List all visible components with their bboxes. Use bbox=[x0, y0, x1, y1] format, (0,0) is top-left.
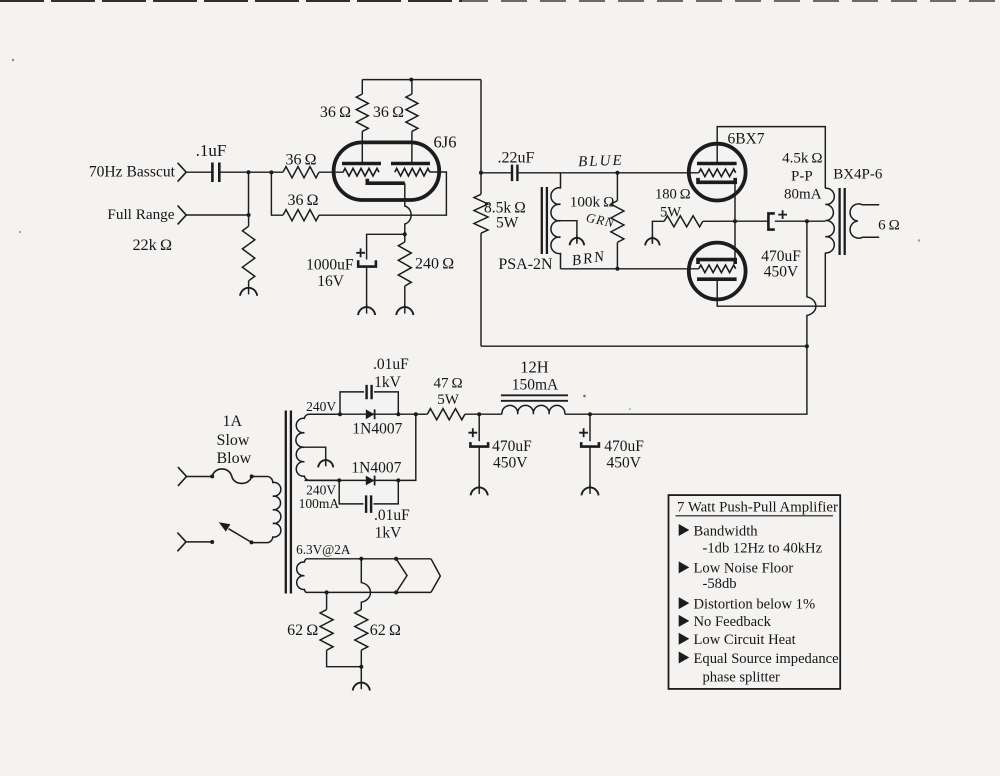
V3 plate bar bbox=[697, 277, 737, 281]
line phase splitter bbox=[703, 670, 781, 686]
input connector J3 (AC line hot) bbox=[178, 467, 187, 486]
svg-text:Bandwidth: Bandwidth bbox=[694, 523, 759, 539]
svg-text:1000uF: 1000uF bbox=[306, 257, 354, 274]
label C4 470uF bbox=[761, 248, 801, 265]
capacitor C4 470uF 450V bbox=[768, 210, 787, 229]
wire R2 to 6J6 grid 1 bbox=[319, 171, 343, 173]
bullet Equal Source impedance bbox=[679, 651, 839, 667]
wire HV top rail bbox=[340, 413, 416, 415]
wire J4 to switch contact bbox=[186, 541, 212, 543]
svg-text:470uF: 470uF bbox=[604, 438, 644, 455]
resistor R1 22k bbox=[242, 215, 254, 288]
svg-text:1N4007: 1N4007 bbox=[352, 421, 402, 438]
wire C2 to ground bbox=[366, 267, 368, 307]
label C7 470uF bbox=[492, 438, 532, 455]
label C5 .01uF bbox=[373, 356, 409, 373]
wire node D to C2 bbox=[367, 234, 405, 259]
transformer T2 primary winding bbox=[825, 188, 834, 253]
wire BRN net T1 to V3 grid bbox=[561, 268, 699, 270]
resistor R6 36 ohm plate 2 bbox=[406, 80, 418, 164]
switch S1 fixed contact bbox=[210, 540, 214, 544]
node L junction bbox=[338, 412, 342, 416]
node Q junction bbox=[477, 412, 481, 416]
node K B+ junction bbox=[805, 344, 809, 348]
wire B+ drop rail lower bbox=[480, 233, 482, 346]
label R11 62 ohm bbox=[287, 622, 318, 639]
svg-text:47 Ω: 47 Ω bbox=[434, 375, 463, 391]
tube V2 6BX7 upper envelope bbox=[689, 144, 746, 201]
label .22uF bbox=[498, 149, 535, 166]
wire B+ feed rail bbox=[481, 345, 807, 347]
svg-text:450V: 450V bbox=[607, 454, 642, 471]
wire R3 around tube to grid 2 bbox=[319, 172, 446, 215]
transformer T1 PSA-2N winding bbox=[551, 173, 561, 269]
svg-text:P-P: P-P bbox=[791, 169, 813, 185]
node E top rail junction bbox=[409, 78, 413, 82]
svg-text:450V: 450V bbox=[493, 454, 528, 471]
svg-text:100k Ω: 100k Ω bbox=[570, 193, 615, 210]
label GRN handwritten bbox=[585, 210, 617, 231]
svg-text:Equal Source impedance: Equal Source impedance bbox=[694, 651, 839, 667]
V2 cathode bar bbox=[698, 178, 735, 182]
svg-text:470uF: 470uF bbox=[492, 438, 532, 455]
transformer T3 heater winding bbox=[297, 559, 431, 593]
V2 plate bar bbox=[697, 162, 737, 166]
capacitor C3 .22uF bbox=[512, 165, 517, 182]
label 1000uF bbox=[306, 257, 354, 274]
svg-text:80mA: 80mA bbox=[784, 187, 822, 203]
heater connector inner chevron bbox=[396, 559, 407, 593]
label BLUE handwritten bbox=[578, 153, 624, 171]
wire J2 to node C bbox=[186, 214, 248, 216]
capacitor C6 .01uF 1kV snubber bbox=[339, 480, 398, 513]
label Full Range bbox=[107, 206, 174, 223]
wire choke to node R bbox=[565, 413, 590, 415]
label 6BX7 bbox=[727, 131, 764, 148]
resistor R11 62 ohm bbox=[320, 592, 361, 666]
wire J1 to C1 bbox=[186, 171, 212, 173]
wire node I to C4 bbox=[735, 220, 768, 222]
transformer T1 core bbox=[542, 187, 547, 254]
label R6 36 ohm bbox=[373, 104, 404, 121]
label 8.5k ohm bbox=[484, 199, 526, 216]
svg-text:phase splitter: phase splitter bbox=[703, 670, 781, 686]
ground below C2 bbox=[358, 304, 375, 315]
node O junction bbox=[337, 478, 341, 482]
ground below C8 bbox=[581, 485, 598, 496]
label 12H bbox=[520, 357, 549, 376]
label 22k ohm bbox=[132, 236, 172, 254]
T3 center tap wire bbox=[304, 447, 325, 466]
label 16V bbox=[317, 273, 345, 290]
ground below heater resistors bbox=[353, 667, 370, 691]
node V heater bottom junction bbox=[325, 590, 329, 594]
bullet Low Circuit Heat bbox=[679, 632, 796, 648]
label BX4P-6 bbox=[833, 167, 883, 183]
label C5 1kV bbox=[374, 374, 402, 391]
node J center tap junction bbox=[805, 219, 809, 223]
label R12 62 ohm bbox=[370, 622, 401, 639]
6J6 common cathode bar bbox=[367, 179, 405, 183]
node W ground junction bbox=[359, 665, 363, 669]
label 70Hz Basscut bbox=[89, 163, 176, 180]
svg-text:5W: 5W bbox=[660, 205, 681, 221]
line -58db bbox=[703, 576, 737, 592]
node B junction bbox=[269, 170, 273, 174]
label 47 ohm bbox=[434, 375, 463, 391]
switch S1 lever bbox=[219, 522, 254, 544]
node F .22uF tap bbox=[479, 171, 483, 175]
label 80mA bbox=[784, 187, 822, 203]
label D2 1N4007 bbox=[351, 459, 401, 476]
resistor R8 100k bbox=[611, 173, 624, 269]
6J6 grid 1 bbox=[343, 168, 379, 176]
node I cathode junction bbox=[733, 219, 737, 223]
svg-text:450V: 450V bbox=[764, 264, 799, 281]
wire node F to C3 bbox=[481, 172, 512, 174]
label C8 470uF bbox=[604, 438, 644, 455]
label Slow bbox=[217, 432, 250, 449]
resistor R4 240 ohm bbox=[398, 234, 411, 306]
ground at T3 center tap bbox=[318, 457, 333, 467]
svg-text:Low Circuit Heat: Low Circuit Heat bbox=[694, 632, 796, 648]
wire J3 to fuse bbox=[187, 476, 213, 478]
ground below R4 bbox=[396, 304, 413, 315]
transformer T2 core bbox=[840, 188, 845, 255]
label 100mA bbox=[299, 496, 340, 511]
V2 grid bbox=[699, 169, 736, 177]
line -1db 12Hz to 40kHz bbox=[703, 540, 823, 556]
svg-text:Full Range: Full Range bbox=[107, 206, 174, 223]
label C7 450V bbox=[493, 454, 528, 471]
label 6.3V@2A bbox=[296, 542, 351, 557]
svg-text:36 Ω: 36 Ω bbox=[287, 192, 318, 209]
svg-text:12H: 12H bbox=[520, 357, 549, 376]
T1 GRN tap terminal bbox=[570, 235, 585, 245]
wire C1 to node A bbox=[219, 171, 283, 173]
ground below C7 bbox=[471, 485, 488, 496]
svg-text:4.5k Ω: 4.5k Ω bbox=[782, 151, 822, 167]
transformer T3 core bbox=[286, 411, 291, 594]
transformer T3 HV secondary winding bbox=[296, 414, 340, 480]
tube V1 6J6 envelope bbox=[334, 142, 440, 200]
svg-text:36 Ω: 36 Ω bbox=[373, 104, 404, 121]
svg-text:150mA: 150mA bbox=[512, 377, 559, 394]
node D cathode junction bbox=[403, 232, 407, 236]
wire fuse to T3 primary bbox=[251, 476, 268, 478]
label P-P bbox=[791, 169, 813, 185]
resistor R7 8.5k 5W bbox=[474, 194, 488, 233]
svg-text:180 Ω: 180 Ω bbox=[655, 187, 691, 203]
node T heater top junction 2 bbox=[394, 557, 398, 561]
label 180 5W bbox=[660, 205, 681, 221]
input connector J4 (AC line neutral) bbox=[177, 533, 186, 552]
svg-text:Low Noise Floor: Low Noise Floor bbox=[694, 561, 794, 577]
bullet Bandwidth bbox=[679, 523, 759, 539]
label R2 36 ohm bbox=[285, 151, 316, 168]
capacitor C8 470uF 450V bbox=[579, 414, 599, 487]
wire V3 plate to OPT bottom bbox=[717, 253, 825, 306]
wire V3 cathode to node I bbox=[734, 221, 736, 259]
node G BLUE junction bbox=[615, 171, 619, 175]
label 100k ohm bbox=[570, 193, 615, 210]
svg-text:62 Ω: 62 Ω bbox=[287, 622, 318, 639]
label .1uF bbox=[196, 141, 227, 160]
tube V3 6BX7 lower envelope bbox=[689, 243, 746, 300]
svg-text:22k Ω: 22k Ω bbox=[132, 236, 172, 254]
input connector J2 (Full Range) bbox=[178, 206, 187, 225]
inductor L1 12H choke bbox=[502, 405, 565, 414]
info title 7 Watt Push-Pull Amplifier bbox=[676, 500, 838, 516]
wire BLUE net C3 to V2 grid bbox=[517, 172, 698, 174]
resistor R3 36 ohm (lower grid) bbox=[283, 210, 319, 221]
svg-text:70Hz Basscut: 70Hz Basscut bbox=[89, 163, 176, 180]
svg-text:1kV: 1kV bbox=[374, 374, 402, 391]
label BRN handwritten bbox=[571, 249, 607, 270]
svg-text:.01uF: .01uF bbox=[373, 356, 409, 373]
svg-text:No Feedback: No Feedback bbox=[694, 614, 772, 630]
svg-text:GRN: GRN bbox=[585, 210, 617, 231]
6J6 grid 2 bbox=[395, 168, 430, 176]
svg-text:Blow: Blow bbox=[216, 450, 251, 467]
label C6 .01uF bbox=[374, 507, 410, 524]
node R junction bbox=[588, 412, 592, 416]
node P junction bbox=[396, 478, 400, 482]
label C6 1kV bbox=[375, 525, 403, 542]
svg-text:6BX7: 6BX7 bbox=[727, 131, 764, 148]
svg-text:PSA-2N: PSA-2N bbox=[498, 256, 553, 273]
bullet No Feedback bbox=[679, 614, 772, 630]
6J6 plate 1 bar bbox=[342, 162, 381, 166]
label C8 450V bbox=[607, 454, 642, 471]
wire V2 plate to OPT top bbox=[717, 127, 825, 189]
svg-text:1A: 1A bbox=[223, 413, 243, 430]
wire node J to OPT center tap bbox=[807, 220, 825, 222]
svg-text:Distortion below 1%: Distortion below 1% bbox=[694, 596, 816, 612]
capacitor C2 1000uF 16V bbox=[356, 248, 376, 266]
wire heater top bbox=[306, 558, 431, 560]
svg-text:6J6: 6J6 bbox=[434, 133, 457, 152]
label 240V upper bbox=[306, 399, 336, 414]
info box frame bbox=[669, 495, 841, 689]
label 1A bbox=[223, 413, 243, 430]
svg-text:BLUE: BLUE bbox=[578, 153, 624, 171]
diode D2 1N4007 bbox=[366, 476, 375, 486]
svg-text:16V: 16V bbox=[317, 273, 345, 290]
label R3 36 ohm bbox=[287, 192, 318, 209]
wire 6J6 cathode with hop over grid-2 wire bbox=[405, 183, 411, 234]
diode D1 1N4007 bbox=[366, 409, 375, 419]
node N junction bbox=[414, 412, 418, 416]
svg-text:BX4P-6: BX4P-6 bbox=[833, 167, 883, 183]
fuse F1 1A slow blow bbox=[210, 469, 254, 483]
V3 cathode bar bbox=[698, 260, 735, 264]
resistor R9 180 ohm 5W bbox=[652, 216, 735, 243]
transformer T2 secondary winding bbox=[850, 204, 879, 238]
label 240V lower bbox=[306, 483, 336, 498]
label 180 ohm bbox=[655, 187, 691, 203]
svg-text:.1uF: .1uF bbox=[196, 141, 227, 160]
svg-text:62 Ω: 62 Ω bbox=[370, 622, 401, 639]
wire node A down to Full Range bbox=[248, 172, 250, 215]
inductor L1 core bbox=[501, 395, 568, 401]
transformer T3 primary winding bbox=[252, 477, 281, 543]
node S heater top junction bbox=[359, 557, 363, 561]
resistor R10 47 ohm 5W bbox=[416, 409, 502, 420]
label 47 5W bbox=[437, 392, 460, 408]
label D1 1N4007 bbox=[352, 421, 402, 438]
svg-text:6.3V@2A: 6.3V@2A bbox=[296, 542, 351, 557]
wire B+ riser with hop bbox=[590, 221, 816, 414]
T1 GRN tap wire bbox=[561, 221, 577, 242]
resistor R5 36 ohm plate 1 bbox=[356, 80, 368, 164]
label 4.5k ohm bbox=[782, 151, 822, 167]
node A junction bbox=[247, 170, 251, 174]
label 240 ohm bbox=[415, 256, 454, 273]
svg-text:1N4007: 1N4007 bbox=[351, 459, 401, 476]
capacitor C7 470uF 450V bbox=[468, 414, 488, 487]
resistor R2 36 ohm (upper grid) bbox=[283, 167, 319, 178]
R9 terminal arc bbox=[645, 235, 660, 245]
svg-text:100mA: 100mA bbox=[299, 496, 340, 511]
svg-text:7 Watt Push-Pull Amplifier: 7 Watt Push-Pull Amplifier bbox=[677, 500, 838, 516]
input connector J1 (70Hz Basscut) bbox=[178, 163, 187, 182]
scan edge artifact top bbox=[0, 1, 1000, 410]
wire HV bottom rail bbox=[305, 414, 416, 480]
node H BRN junction bbox=[615, 267, 619, 271]
wire node B to lower 36 ohm bbox=[271, 172, 283, 215]
svg-text:36 Ω: 36 Ω bbox=[285, 151, 316, 168]
6J6 plate 2 bar bbox=[391, 162, 430, 166]
label 8.5k 5W bbox=[496, 215, 519, 232]
wire top rail bbox=[362, 79, 481, 81]
V3 grid bbox=[699, 265, 736, 273]
node U heater bottom junction bbox=[394, 590, 398, 594]
svg-text:-1db 12Hz to 40kHz: -1db 12Hz to 40kHz bbox=[703, 540, 823, 556]
svg-text:.01uF: .01uF bbox=[374, 507, 410, 524]
svg-text:5W: 5W bbox=[496, 215, 519, 232]
svg-text:5W: 5W bbox=[437, 392, 460, 408]
label R5 36 ohm bbox=[320, 104, 351, 121]
svg-text:470uF: 470uF bbox=[761, 248, 801, 265]
node M junction bbox=[396, 412, 400, 416]
heater connector outer chevron bbox=[431, 559, 440, 593]
svg-text:.22uF: .22uF bbox=[498, 149, 535, 166]
wire V2 cathode to node I bbox=[734, 182, 736, 221]
wire C4 to node J bbox=[775, 220, 807, 222]
svg-text:1kV: 1kV bbox=[375, 525, 403, 542]
bullet Distortion below 1% bbox=[679, 596, 815, 612]
label 150mA bbox=[512, 377, 559, 394]
svg-text:BRN: BRN bbox=[571, 249, 607, 270]
resistor R12 62 ohm with hop bbox=[355, 559, 371, 667]
label C4 450V bbox=[764, 264, 799, 281]
node C junction (Full Range) bbox=[247, 213, 251, 217]
svg-text:240V: 240V bbox=[306, 399, 336, 414]
svg-text:6 Ω: 6 Ω bbox=[878, 217, 900, 233]
ground below R1 bbox=[240, 287, 257, 296]
label Blow bbox=[216, 450, 251, 467]
svg-text:36 Ω: 36 Ω bbox=[320, 104, 351, 121]
svg-text:240 Ω: 240 Ω bbox=[415, 256, 454, 273]
label 6J6 bbox=[434, 133, 457, 152]
bullet Low Noise Floor bbox=[679, 561, 794, 577]
capacitor C5 .01uF 1kV snubber bbox=[340, 385, 398, 414]
svg-text:-58db: -58db bbox=[703, 576, 737, 592]
svg-text:Slow: Slow bbox=[217, 432, 250, 449]
label PSA-2N bbox=[498, 256, 553, 273]
label 6 ohm bbox=[878, 217, 900, 233]
capacitor C1 .1uF bbox=[212, 163, 219, 183]
wire B+ drop rail upper bbox=[480, 80, 482, 195]
